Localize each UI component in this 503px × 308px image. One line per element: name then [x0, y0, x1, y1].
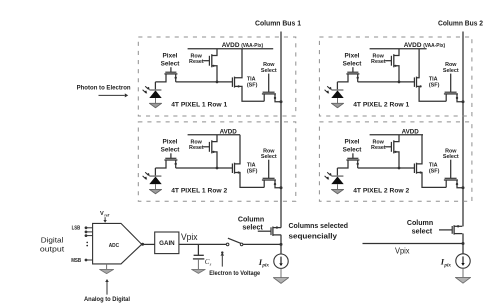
- svg-text:Select: Select: [343, 60, 363, 67]
- dashed box 4T PIXEL 2 Row 1: [319, 37, 472, 116]
- transistor row-select NMOS (Pixel 1 Row 2): [262, 160, 281, 188]
- wire FD node (Pixel 2 Row 2): [358, 167, 415, 169]
- transistor row-reset NMOS (Pixel 1 Row 2): [203, 135, 217, 168]
- wire FD node (Pixel 2 Row 1): [358, 81, 415, 83]
- label Row Reset (Pixel 1 Row 2): [189, 140, 204, 152]
- svg-text:Columns selected: Columns selected: [289, 221, 349, 230]
- svg-text:Select: Select: [443, 68, 459, 74]
- svg-text:AVDD: AVDD: [220, 128, 237, 135]
- svg-text:GAIN: GAIN: [159, 241, 175, 247]
- svg-text:Column Bus 2: Column Bus 2: [438, 18, 483, 27]
- op-amp ADC U1 body: [93, 223, 142, 264]
- junction Vpix column bus 1: [280, 243, 283, 246]
- junction Vpix column bus 2: [462, 242, 465, 245]
- svg-text:Select: Select: [443, 154, 459, 160]
- label Cs value: [205, 258, 212, 266]
- current source Ipix (bus 2): [456, 254, 470, 268]
- svg-text:Pixel: Pixel: [345, 53, 360, 60]
- label Pixel Select (Pixel 1 Row 2): [161, 139, 181, 154]
- svg-text:(SF): (SF): [429, 83, 440, 89]
- svg-text:LSB: LSB: [72, 225, 81, 231]
- svg-text:s: s: [210, 261, 212, 266]
- svg-text:4T PIXEL 2 Row 1: 4T PIXEL 2 Row 1: [353, 101, 409, 108]
- label TIA (SF) (Pixel 2 Row 2): [429, 163, 440, 175]
- transistor row-select NMOS (Pixel 2 Row 2): [444, 160, 463, 188]
- label TIA (SF) (Pixel 1 Row 2): [247, 163, 258, 175]
- label Ipix (bus 1): [258, 257, 270, 269]
- ground photodiode (Pixel 1 Row 1): [149, 103, 161, 107]
- wire FD node (Pixel 1 Row 1): [176, 81, 233, 83]
- junction FD node (Pixel 2 Row 2): [398, 167, 401, 170]
- ground capacitor Cs: [192, 269, 206, 273]
- ellipsis bit lines: [86, 242, 88, 247]
- arrow electron to voltage: [221, 253, 225, 267]
- photodiode PD (Pixel 2 Row 2): [325, 168, 344, 189]
- junction FD node (Pixel 1 Row 2): [216, 167, 219, 170]
- svg-text:Reset: Reset: [189, 59, 204, 65]
- arrow analog to digital: [105, 279, 109, 295]
- wire column bus 1 (lower): [280, 235, 282, 254]
- transistor pixel-select NMOS (Pixel 2 Row 2): [337, 153, 359, 168]
- label Column select (bus 2): [407, 218, 433, 235]
- amplifier GAIN box: [155, 232, 179, 254]
- wire column bus 1 (upper): [280, 32, 282, 228]
- transistor row-reset NMOS (Pixel 2 Row 2): [385, 135, 399, 168]
- wire AVDD rail (Pixel 2 Row 1): [370, 48, 427, 50]
- svg-text:Select: Select: [161, 146, 181, 153]
- wire AVDD rail (Pixel 1 Row 2): [188, 134, 240, 136]
- current source Ipix (bus 1): [274, 254, 288, 268]
- junction FD node (Pixel 1 Row 1): [216, 81, 219, 84]
- label Row Select (Pixel 1 Row 1): [261, 62, 277, 74]
- svg-text:(SF): (SF): [247, 169, 258, 175]
- svg-text:ADC: ADC: [109, 243, 120, 249]
- wire Vpix (column 2): [363, 243, 464, 245]
- net label AVDD (Pixel 1 Row 1): [222, 42, 264, 49]
- svg-text:Electron to Voltage: Electron to Voltage: [209, 270, 260, 277]
- svg-text:Reset: Reset: [371, 59, 386, 65]
- svg-text:Column Bus 1: Column Bus 1: [255, 18, 301, 27]
- transistor column-select NMOS (bus 1): [258, 226, 281, 235]
- svg-text:Photon to Electron: Photon to Electron: [77, 85, 131, 92]
- svg-text:V: V: [100, 211, 104, 217]
- svg-text:(VAA-Pix): (VAA-Pix): [423, 43, 445, 49]
- wire ADC output to GAIN: [142, 243, 155, 245]
- junction column-bus tap (Pixel 1 Row 2): [280, 186, 283, 189]
- transistor pixel-select NMOS (Pixel 1 Row 2): [155, 153, 177, 168]
- transistor TIA source-follower (Pixel 1 Row 2): [232, 135, 264, 188]
- ground Ipix (bus 1): [273, 268, 288, 283]
- wire GAIN output to switch: [179, 243, 226, 245]
- svg-text:Pixel: Pixel: [163, 139, 178, 146]
- svg-text:select: select: [412, 226, 433, 235]
- label Pixel Select (Pixel 2 Row 1): [343, 53, 363, 68]
- svg-text:pix: pix: [443, 262, 451, 268]
- svg-text:select: select: [242, 223, 263, 232]
- wire column bus 2 (lower): [462, 234, 464, 254]
- transistor TIA source-follower (Pixel 2 Row 2): [414, 135, 446, 188]
- ground photodiode (Pixel 1 Row 2): [149, 189, 161, 193]
- junction column-bus tap (Pixel 2 Row 1): [462, 100, 465, 103]
- svg-text:pix: pix: [261, 263, 269, 269]
- ground ADC: [100, 264, 114, 274]
- label Pixel Select (Pixel 1 Row 1): [161, 53, 181, 68]
- label Digital output: [40, 236, 65, 254]
- transistor pixel-select NMOS (Pixel 2 Row 1): [337, 67, 359, 82]
- dashed box 4T PIXEL 1 Row 2: [138, 122, 295, 201]
- transistor row-select NMOS (Pixel 2 Row 1): [444, 74, 463, 102]
- svg-text:Vpix: Vpix: [181, 232, 198, 242]
- ground photodiode (Pixel 2 Row 1): [331, 103, 343, 107]
- svg-text:Analog to Digital: Analog to Digital: [84, 296, 130, 303]
- junction column-bus tap (Pixel 1 Row 1): [280, 100, 283, 103]
- label Row Select (Pixel 2 Row 2): [443, 148, 459, 160]
- wire column bus 2 (upper): [462, 32, 464, 227]
- dashed box 4T PIXEL 2 Row 2: [319, 122, 472, 201]
- label TIA (SF) (Pixel 2 Row 1): [429, 77, 440, 89]
- label TIA (SF) (Pixel 1 Row 1): [247, 77, 258, 89]
- wire switch to column bus 1: [243, 243, 281, 245]
- label Vref: [100, 211, 110, 217]
- svg-text:Pixel: Pixel: [163, 53, 178, 60]
- wire MSB bit output line: [85, 259, 93, 262]
- ground Ipix (bus 2): [455, 268, 470, 283]
- wire AVDD rail (Pixel 1 Row 1): [188, 48, 274, 50]
- transistor column-select NMOS (bus 2): [439, 225, 462, 235]
- svg-text:Select: Select: [161, 60, 181, 67]
- transistor TIA source-follower (Pixel 2 Row 1): [414, 49, 446, 102]
- svg-text:Select: Select: [261, 154, 277, 160]
- label Column select (bus 1): [238, 214, 264, 231]
- svg-text:Digital: Digital: [41, 236, 64, 245]
- wire LSB bit output line: [85, 226, 93, 229]
- wire Vref input arrow: [103, 217, 106, 223]
- svg-text:4T PIXEL 1 Row 2: 4T PIXEL 1 Row 2: [171, 188, 227, 195]
- svg-text:4T PIXEL 2 Row 2: 4T PIXEL 2 Row 2: [353, 188, 409, 195]
- transistor row-select NMOS (Pixel 1 Row 1): [262, 74, 281, 102]
- svg-text:ref: ref: [104, 213, 110, 217]
- transistor pixel-select NMOS (Pixel 1 Row 1): [155, 67, 177, 82]
- svg-text:MSB: MSB: [71, 258, 81, 264]
- svg-text:sequencially: sequencially: [289, 232, 338, 241]
- junction ADC output node: [141, 243, 144, 246]
- ground photodiode (Pixel 2 Row 2): [331, 189, 343, 193]
- svg-text:Reset: Reset: [371, 145, 386, 151]
- svg-text:(VAA-Pix): (VAA-Pix): [241, 43, 263, 49]
- junction column-bus tap (Pixel 2 Row 2): [462, 186, 465, 189]
- wire AVDD rail (Pixel 2 Row 2): [370, 134, 423, 136]
- photodiode PD (Pixel 1 Row 1): [143, 82, 162, 103]
- svg-text:Select: Select: [343, 146, 363, 153]
- capacitor Cs: [193, 244, 204, 269]
- label Row Reset (Pixel 2 Row 2): [371, 140, 386, 152]
- label Row Select (Pixel 2 Row 1): [443, 62, 459, 74]
- net label AVDD (Pixel 2 Row 1): [404, 42, 446, 49]
- label Ipix (bus 2): [440, 257, 452, 269]
- label Columns selected sequencially: [289, 221, 349, 240]
- dashed box 4T PIXEL 1 Row 1: [138, 37, 295, 116]
- svg-text:AVDD: AVDD: [222, 42, 240, 49]
- label Row Reset (Pixel 1 Row 1): [189, 53, 204, 65]
- transistor row-reset NMOS (Pixel 1 Row 1): [203, 49, 217, 82]
- wire FD node (Pixel 1 Row 2): [176, 167, 233, 169]
- svg-text:Select: Select: [261, 68, 277, 74]
- svg-text:output: output: [40, 244, 65, 253]
- svg-text:AVDD: AVDD: [402, 128, 419, 135]
- transistor row-reset NMOS (Pixel 2 Row 1): [385, 49, 399, 82]
- label Row Reset (Pixel 2 Row 1): [371, 53, 386, 65]
- svg-text:(SF): (SF): [429, 169, 440, 175]
- wire bit output line 3: [85, 234, 93, 237]
- wire bit output line 2: [85, 231, 93, 234]
- svg-text:Vpix: Vpix: [395, 247, 410, 256]
- switch sample S1: [226, 238, 243, 246]
- transistor TIA source-follower (Pixel 1 Row 1): [232, 49, 264, 102]
- junction FD node (Pixel 2 Row 1): [398, 81, 401, 84]
- label Row Select (Pixel 1 Row 2): [261, 148, 277, 160]
- label Pixel Select (Pixel 2 Row 2): [343, 139, 363, 154]
- svg-text:AVDD: AVDD: [404, 42, 422, 49]
- svg-text:Reset: Reset: [189, 145, 204, 151]
- arrow photon to electron: [99, 93, 129, 97]
- svg-text:(SF): (SF): [247, 83, 258, 89]
- svg-text:Pixel: Pixel: [345, 139, 360, 146]
- photodiode PD (Pixel 1 Row 2): [143, 168, 162, 189]
- photodiode PD (Pixel 2 Row 1): [325, 82, 344, 103]
- svg-text:4T PIXEL 1 Row 1: 4T PIXEL 1 Row 1: [171, 101, 227, 108]
